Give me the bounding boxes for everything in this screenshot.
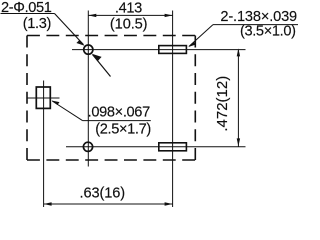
leader underline 2-phi.051 <box>1 13 55 15</box>
centerline vertical through holes <box>87 11 89 167</box>
slot bottom (.138 x .039) <box>159 143 187 151</box>
leader arrow at top hole upper-left <box>76 40 84 46</box>
svg-text:(1.3): (1.3) <box>23 16 51 32</box>
dimension arrow .413 right <box>165 14 173 17</box>
svg-text:(2.5×1.7): (2.5×1.7) <box>95 122 151 138</box>
hole bottom (phi .051) <box>83 142 92 151</box>
svg-text:.098×.067: .098×.067 <box>88 105 150 121</box>
leader underline 2-.138x.039 <box>213 24 298 26</box>
centerline vertical through slots <box>172 11 174 208</box>
dimension arrow .63 right <box>165 202 173 205</box>
dimension arrow .413 left <box>88 14 96 17</box>
leader diagonal to top hole <box>55 14 84 45</box>
svg-text:(10.5): (10.5) <box>110 17 148 33</box>
centerline horizontal top row <box>72 49 246 51</box>
outline dashed top edge <box>27 35 195 37</box>
svg-text:(3.5×1.0): (3.5×1.0) <box>240 24 296 40</box>
leader diagonal to top slot <box>189 25 213 47</box>
dimension line .63 <box>44 203 173 205</box>
centerline horizontal bottom row <box>66 146 246 148</box>
leader diagonal to left slot <box>52 101 82 121</box>
leader underline .098x.067 <box>83 120 151 122</box>
dimension line .413 <box>88 14 172 16</box>
outline dashed right edge <box>194 36 196 161</box>
slot top (.138 x .039) <box>159 46 187 54</box>
svg-text:.472(12): .472(12) <box>214 76 231 132</box>
dimension arrow .63 left <box>44 202 52 205</box>
hole top (phi .051) <box>84 45 93 54</box>
leader arrow at left slot <box>52 101 60 106</box>
leader arrow at top slot <box>188 42 196 47</box>
svg-text:.413: .413 <box>115 0 142 16</box>
dimension line .472 <box>237 50 239 147</box>
slot left (.098 x .067) <box>36 87 50 108</box>
dimension arrow .472 bottom <box>237 138 240 146</box>
svg-text:2-Φ.051: 2-Φ.051 <box>1 0 52 16</box>
outline dashed left edge <box>26 36 28 161</box>
svg-text:.63(16): .63(16) <box>80 185 126 201</box>
outline dashed bottom edge <box>27 159 195 161</box>
centerline horizontal left slot <box>27 97 60 99</box>
dimension arrow .472 top <box>237 48 240 56</box>
leader tail lower-right of hole <box>93 55 111 77</box>
leader arrow at top hole lower-right <box>92 54 102 61</box>
centerline vertical through left slot <box>43 81 45 208</box>
